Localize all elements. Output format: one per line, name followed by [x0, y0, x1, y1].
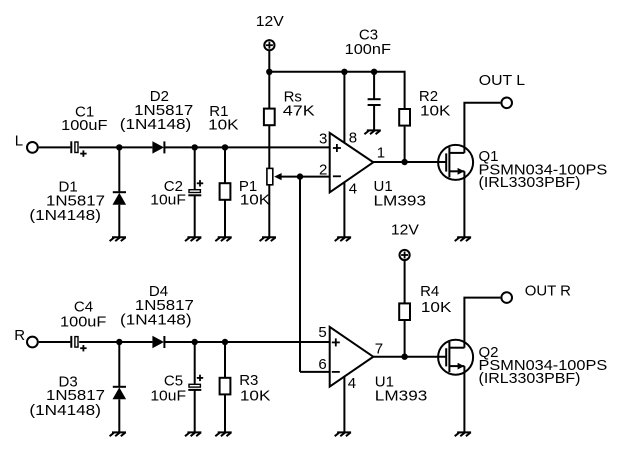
svg-text:(1N4148): (1N4148)	[29, 207, 101, 224]
wire C3 top lead	[373, 72, 375, 99]
wire D3 to ground	[118, 399, 120, 432]
resistor R3	[220, 378, 231, 395]
svg-text:4: 4	[348, 375, 356, 392]
svg-text:47K: 47K	[283, 103, 315, 120]
wire R2 to output node	[404, 127, 406, 162]
svg-text:(IRL3303PBF): (IRL3303PBF)	[479, 370, 581, 387]
junction R1 node	[222, 144, 228, 150]
diode D2	[152, 141, 164, 153]
svg-text:R: R	[14, 327, 25, 344]
svg-text:10K: 10K	[208, 117, 239, 134]
ground under P1	[260, 237, 276, 241]
junction rail pin8	[341, 69, 347, 75]
wire 12V bottom supply to R4	[404, 260, 406, 303]
svg-text:10K: 10K	[240, 387, 271, 404]
ground op-amp A pin 4	[335, 237, 351, 241]
ground under C3	[364, 130, 380, 134]
wire C2 top lead	[194, 147, 196, 189]
wire Rs to P1 top	[268, 126, 270, 168]
svg-text:100uF: 100uF	[60, 314, 106, 331]
power supply 12V bottom	[400, 250, 410, 260]
wire Q1 drain to OUT L	[464, 103, 500, 153]
junction C2 node	[192, 144, 198, 150]
wire node B to D4	[119, 341, 152, 343]
capacitor C2	[188, 180, 203, 195]
wire Q2 drain to OUT R	[464, 298, 500, 348]
diode D4	[152, 336, 164, 348]
wire C5 to ground	[194, 390, 196, 432]
svg-text:OUT L: OUT L	[479, 72, 525, 89]
wire R4 to output node	[404, 321, 406, 357]
wire C4 to node B	[79, 341, 119, 343]
svg-text:10K: 10K	[240, 192, 271, 209]
wire Q1 source to ground	[463, 171, 465, 237]
wire C3 to ground	[373, 105, 375, 130]
svg-text:3: 3	[319, 130, 327, 147]
svg-text:10uF: 10uF	[150, 387, 186, 404]
wire wiper node down to pin 6 row	[299, 177, 301, 372]
ground Q2 source	[455, 432, 471, 436]
ground under D1	[110, 237, 126, 241]
junction U1B output	[401, 354, 407, 360]
svg-text:5: 5	[318, 324, 326, 341]
svg-text:(IRL3303PBF): (IRL3303PBF)	[479, 174, 581, 191]
ground Q1 source	[455, 237, 471, 241]
ground under C5	[185, 432, 201, 436]
svg-text:10K: 10K	[420, 103, 451, 120]
svg-text:(1N4148): (1N4148)	[29, 402, 101, 419]
wire Q2 source to ground	[463, 366, 465, 432]
svg-text:(1N4148): (1N4148)	[120, 116, 192, 133]
input terminal R	[27, 337, 38, 348]
input terminal L	[27, 142, 38, 153]
wire R1 to ground	[224, 200, 226, 237]
wire R3 top lead	[224, 342, 226, 378]
svg-text:6: 6	[318, 356, 326, 373]
junction R3 node	[222, 339, 228, 345]
capacitor C5	[188, 375, 203, 390]
wire op-amp 2 output to Q2 gate	[372, 356, 447, 358]
op-amp U1 comparator B	[330, 327, 374, 387]
wire node A to D2	[119, 146, 152, 148]
resistor R4	[399, 303, 410, 320]
svg-text:12V: 12V	[391, 222, 419, 239]
diode D1	[113, 192, 127, 205]
wire D3 top lead	[118, 342, 120, 387]
wire op-amp pin 8 to rail	[343, 72, 345, 143]
junction P1 wiper node	[297, 173, 303, 179]
wire D4 to op-amp pin 5	[164, 341, 329, 343]
wire D1 to ground	[118, 205, 120, 238]
ground under D3	[110, 432, 126, 436]
svg-text:L: L	[15, 132, 23, 149]
capacitor C1	[71, 141, 86, 157]
svg-text:100nF: 100nF	[345, 41, 391, 58]
wire C2 to ground	[194, 195, 196, 237]
junction 12V rail left	[266, 69, 272, 75]
ground under R1	[215, 237, 231, 241]
potentiometer P1	[267, 168, 282, 184]
wire op-amp 2 pin 4 to ground	[343, 377, 345, 432]
wire L input to C1	[39, 146, 71, 148]
ground op-amp B pin 4	[335, 432, 351, 436]
svg-text:R4: R4	[420, 283, 439, 300]
wire R3 to ground	[224, 395, 226, 433]
op-amp U1 comparator A	[330, 133, 374, 192]
node B junction	[116, 339, 122, 345]
junction C5 node	[192, 339, 198, 345]
svg-text:LM393: LM393	[374, 192, 427, 209]
svg-text:8: 8	[349, 130, 357, 147]
wire C1 to node A	[79, 146, 119, 148]
resistor Rs	[264, 109, 275, 126]
wire to op-amp pin 6	[300, 371, 330, 373]
junction rail C3	[371, 69, 377, 75]
diode D3	[113, 387, 127, 400]
ground under R3	[215, 432, 231, 436]
wire P1 wiper to op-amp pin 2	[281, 176, 330, 178]
svg-text:10K: 10K	[421, 299, 452, 316]
wire R input to C4	[39, 341, 71, 343]
svg-text:LM393: LM393	[375, 387, 428, 404]
wire Rs top lead	[268, 72, 270, 109]
svg-text:7: 7	[375, 341, 383, 358]
svg-text:(1N4148): (1N4148)	[120, 312, 192, 329]
ground under C2	[185, 237, 201, 241]
wire op-amp pin 4 to ground	[343, 182, 345, 237]
wire 12V supply drop	[268, 50, 270, 72]
svg-text:100uF: 100uF	[61, 117, 107, 134]
svg-text:1: 1	[377, 144, 385, 161]
svg-text:OUT R: OUT R	[525, 282, 571, 299]
resistor R2	[399, 109, 410, 126]
wire P1 bottom to ground	[268, 185, 270, 237]
capacitor C3	[368, 99, 381, 105]
wire C5 top lead	[194, 342, 196, 384]
output terminal OUT L	[501, 98, 512, 109]
wire op-amp 1 output to Q1 gate	[372, 161, 447, 163]
resistor R1	[220, 183, 231, 200]
wire 12V rail to R2	[269, 72, 404, 109]
capacitor C4	[71, 336, 86, 352]
svg-text:2: 2	[319, 161, 327, 178]
wire D2 to op-amp pin 3	[164, 146, 329, 148]
junction U1A output	[401, 159, 407, 165]
svg-text:10uF: 10uF	[150, 192, 186, 209]
power supply 12V top	[264, 40, 274, 50]
node A junction	[116, 144, 122, 150]
transistor Q2	[438, 340, 473, 375]
transistor Q1	[438, 145, 473, 180]
wire R1 top lead	[224, 147, 226, 183]
svg-text:4: 4	[349, 180, 357, 197]
svg-text:12V: 12V	[256, 13, 284, 30]
wire D1 anode-top lead	[118, 147, 120, 192]
output terminal OUT R	[501, 292, 512, 303]
